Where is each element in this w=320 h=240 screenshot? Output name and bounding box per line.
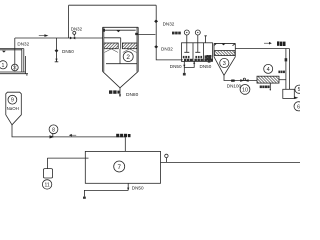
flow arrow b (264, 42, 272, 45)
agitator M1 (184, 30, 189, 52)
svg-text:DN32: DN32 (71, 26, 83, 31)
tag circle 3 (220, 58, 229, 67)
device box 11 (43, 158, 52, 178)
svg-text:7: 7 (117, 164, 121, 171)
label paini U2 (109, 90, 120, 93)
U4 outlet pipe (279, 79, 286, 81)
outlet vent (165, 154, 168, 162)
U2 center pipe (119, 49, 121, 64)
U3 level marker (222, 44, 226, 46)
svg-text:3: 3 (223, 61, 226, 67)
U7 outlet pipe (161, 161, 301, 163)
svg-text:11: 11 (44, 182, 49, 188)
label DN50 a (62, 49, 74, 54)
svg-text:DN32: DN32 (17, 41, 29, 46)
svg-text:9: 9 (11, 98, 14, 104)
U2 sludge drain (119, 88, 121, 98)
cell marks b (195, 56, 202, 58)
U2 feed pipe (104, 38, 121, 49)
tag circle 9 (8, 95, 17, 104)
U-M bottom loop pipe (184, 61, 194, 67)
labels under cells (184, 59, 213, 62)
dosing pipe (12, 125, 125, 137)
svg-text:5: 5 (298, 87, 300, 93)
dosing arrow (50, 135, 55, 138)
valve V1 (55, 49, 58, 52)
cell3 stub (204, 36, 206, 43)
label filter name (260, 86, 270, 89)
mixer cell dividers (193, 43, 203, 62)
label fanchongxi (278, 71, 285, 74)
tag circle 11 (42, 180, 51, 189)
svg-text:NaOH: NaOH (7, 106, 19, 111)
U2 media hatch left (104, 43, 118, 49)
label jiayao (116, 134, 130, 137)
filter U4 body (257, 76, 279, 83)
valve V5 solid (231, 80, 235, 82)
label DN50 d (132, 185, 144, 190)
label DN50 c (200, 64, 212, 69)
U4 drain (270, 83, 271, 90)
tag circle 1 (0, 61, 7, 69)
label shangqingye (277, 41, 286, 46)
drain run pipe (84, 190, 128, 196)
svg-text:DN50: DN50 (62, 49, 74, 54)
U7 bottom drain (127, 183, 129, 190)
tank T1 right wall (22, 49, 26, 74)
svg-text:10: 10 (242, 87, 248, 93)
U3 plate hatch (214, 51, 235, 56)
bypass top pipe (69, 4, 157, 6)
tag circle 2 (123, 52, 133, 62)
tank T1 bottom (0, 72, 28, 76)
U-M drain (183, 67, 186, 75)
mixer tank U-M box (182, 43, 213, 62)
svg-text:DN32: DN32 (163, 22, 175, 27)
label DN32 a (17, 41, 29, 46)
U3 sludge pipe DN100 (224, 75, 257, 80)
svg-text:6: 6 (297, 104, 300, 110)
label jiaobanji (172, 32, 181, 35)
valve V3 (155, 20, 158, 23)
dosing drop pipe (124, 137, 126, 152)
label DN100 (227, 83, 242, 88)
supernatant pipe (235, 48, 289, 50)
svg-text:8: 8 (52, 127, 55, 133)
settler U3 rim (214, 43, 235, 45)
U3 cone (214, 57, 235, 76)
tag circle 8 (49, 125, 58, 137)
clarifier U2 left wall (103, 27, 104, 71)
U2 inner floor (106, 63, 137, 65)
tag circle 4 (264, 64, 273, 73)
tag circle 7 (114, 161, 125, 172)
tag circle 6 (294, 102, 303, 111)
U2 cone (103, 72, 138, 88)
label DN50 b (170, 64, 182, 69)
U2 chevrons (105, 49, 137, 53)
valve V4 (155, 45, 158, 48)
U2 outlet pipe (138, 34, 155, 36)
box U5 (283, 89, 295, 98)
tank U7 (85, 151, 160, 183)
U3 walls (214, 43, 235, 56)
valve V2 with actuator (70, 31, 76, 39)
downcomer pipes right (285, 49, 290, 90)
label DN32 c (163, 22, 175, 27)
agitator M2 (195, 30, 200, 52)
cell marks a (183, 56, 190, 58)
tank T1 top edge (0, 49, 24, 50)
svg-text:DN50: DN50 (170, 64, 182, 69)
drain end symbol (83, 197, 86, 199)
bypass downcomer (156, 5, 183, 60)
U3 side marks (207, 55, 212, 63)
svg-text:1: 1 (2, 63, 5, 69)
svg-text:DN100: DN100 (227, 83, 242, 88)
arrow to circle6 (294, 97, 298, 100)
flow arrow a (39, 34, 49, 37)
U2 vents (103, 29, 138, 35)
clarifier U2 top edge (103, 27, 139, 30)
label NaOH (7, 106, 19, 111)
U2 media hatch right (122, 43, 136, 49)
pump P2 (240, 78, 248, 82)
tag circle 10 (240, 85, 250, 95)
loop arrowheads (183, 62, 195, 68)
inlet level arrow (2, 51, 6, 53)
svg-text:DN32: DN32 (161, 46, 173, 51)
svg-text:2: 2 (126, 54, 130, 61)
U2 level marker (116, 30, 120, 32)
flow arrow c (69, 134, 76, 137)
label DN32 b (71, 26, 83, 31)
pump P1 (11, 64, 18, 71)
drain arrowhead (55, 59, 57, 62)
cell marks c (205, 55, 212, 58)
label DN32 d (161, 46, 173, 51)
svg-text:DN80: DN80 (126, 92, 139, 98)
U7 left inlet pipe (47, 157, 88, 159)
tag circle 5 (295, 85, 303, 93)
svg-text:DN50: DN50 (132, 185, 144, 190)
svg-text:DN50: DN50 (200, 64, 212, 69)
pipe riser from pump (14, 38, 16, 64)
bypass riser x80 (68, 5, 70, 38)
main pipe y38 (15, 37, 103, 39)
label DN80 a (126, 92, 139, 98)
clarifier U2 right wall (137, 27, 138, 71)
svg-text:4: 4 (267, 67, 270, 73)
NaOH hopper (6, 92, 21, 125)
drain branch pipe (55, 38, 59, 62)
